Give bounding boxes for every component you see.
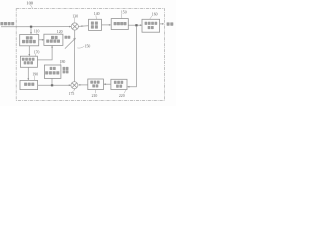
outer dashed box 100	[16, 9, 164, 101]
node: 2-line annotation right of box 180	[63, 67, 69, 74]
svg-text:190: 190	[32, 73, 38, 77]
wire: box 150 to box 160 with junction	[128, 24, 141, 26]
wire: box 210 to M2	[79, 84, 88, 86]
node: junction J3 under box 180	[51, 84, 53, 86]
multiplier circle M2 (lower)	[71, 82, 78, 91]
box 180 drive module	[44, 65, 61, 78]
label 220 below box	[119, 90, 126, 99]
box 220	[111, 79, 127, 89]
wire: box 170 right, up into box 120 bottom	[37, 46, 52, 60]
label 175 for M2	[69, 90, 75, 96]
wire: output arrow	[160, 23, 164, 25]
wire: junction J1 down to box 110	[30, 27, 32, 34]
svg-text:150: 150	[121, 11, 127, 15]
label 100	[26, 1, 33, 9]
svg-text:100: 100	[26, 1, 33, 6]
svg-text:175: 175	[69, 92, 75, 96]
label 180	[60, 60, 66, 65]
label 210 below box	[92, 90, 98, 98]
svg-text:130: 130	[72, 14, 78, 18]
label 150 near diagonal with bent lead	[77, 45, 90, 49]
svg-text:160: 160	[152, 12, 158, 16]
label 130 for multiplier M1	[72, 14, 78, 22]
wire: box 190 to multiplier M2, with junction	[38, 84, 71, 86]
multiplier circle M1 (upper)	[71, 23, 78, 30]
wire: junction J3 up into box 180	[51, 79, 53, 86]
label 150	[121, 11, 127, 19]
node: input voltage label 输入电压	[0, 22, 14, 25]
label 170	[34, 50, 40, 56]
wire: input line	[1, 26, 71, 28]
box 160 output filter	[142, 19, 160, 32]
wire: box 170 down to box 190	[27, 67, 29, 80]
wire: box 220 to box 210	[104, 83, 111, 85]
wire: M1 to box 140 with mid arrowhead	[78, 25, 88, 28]
svg-text:150: 150	[85, 45, 91, 49]
box 110 voltage sampling	[20, 35, 39, 46]
box 120 control module	[44, 34, 63, 45]
wire: from junction J2 down and into box 220	[128, 26, 137, 86]
box 140	[89, 19, 102, 30]
wire: box 140 to box 150	[102, 24, 111, 26]
box 170 reference generator	[20, 56, 37, 67]
svg-text:140: 140	[94, 12, 100, 16]
box 150	[111, 19, 128, 30]
box 210	[88, 79, 104, 90]
wire: diagonal arrow into vertical line	[65, 39, 75, 49]
svg-text:220: 220	[119, 94, 125, 98]
box 190 filter 滤波器	[20, 80, 38, 89]
label 190	[32, 73, 38, 81]
label 120	[57, 30, 63, 34]
svg-text:210: 210	[92, 94, 98, 98]
wire: vertical line between multipliers	[74, 30, 76, 82]
wire: box 110 down to box 170	[28, 46, 30, 56]
svg-text:120: 120	[57, 30, 63, 34]
node: output label 输出	[167, 22, 174, 25]
label 160	[150, 12, 158, 19]
wire: box 110 to box 120	[39, 39, 44, 41]
label 110	[34, 30, 40, 35]
svg-text:170: 170	[34, 50, 40, 54]
node: 2-char annotation right of box 120	[65, 36, 71, 39]
label 140	[94, 12, 100, 19]
node: junction J2 on feedback tap	[135, 24, 137, 26]
node: junction J1 on input line	[30, 26, 32, 28]
